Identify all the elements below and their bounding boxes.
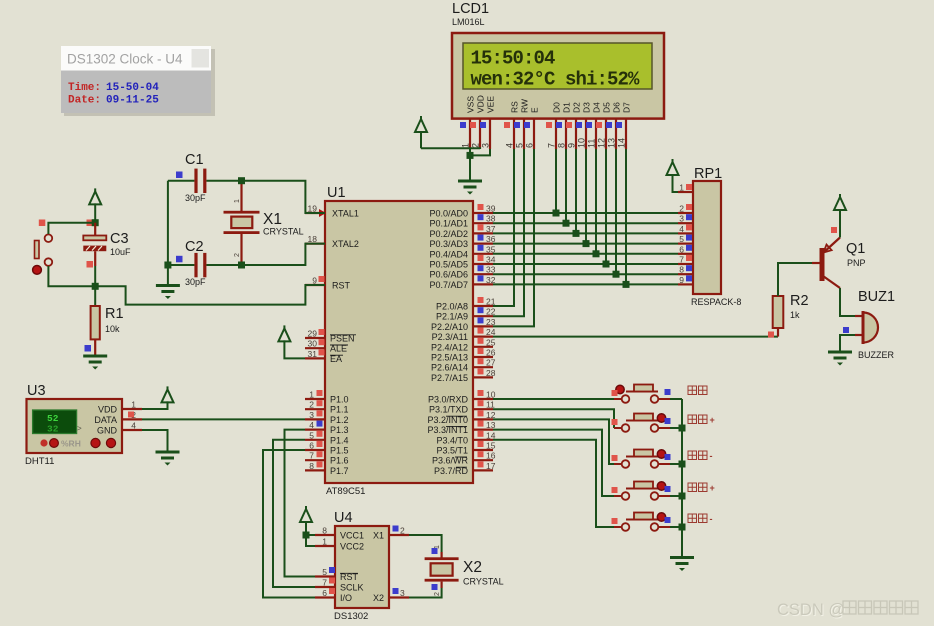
svg-text:3: 3 xyxy=(481,143,491,148)
svg-text:wen:32°C shi:52%: wen:32°C shi:52% xyxy=(471,69,641,91)
svg-text:P2.7/A15: P2.7/A15 xyxy=(431,373,468,383)
svg-text:3: 3 xyxy=(309,410,314,420)
svg-text:10k: 10k xyxy=(105,324,120,334)
svg-text:D0: D0 xyxy=(552,102,562,113)
svg-text:P0.4/AD4: P0.4/AD4 xyxy=(429,249,468,259)
svg-text:P2.3/A11: P2.3/A11 xyxy=(432,332,468,342)
wire P3.4 to button HUM- xyxy=(493,440,614,527)
button SW4 (shi du +) xyxy=(612,482,671,500)
svg-text:%RH: %RH xyxy=(61,439,81,449)
ground for R1 xyxy=(83,355,107,358)
LCD1 screen xyxy=(463,43,652,89)
wire DHT11 GND to ground xyxy=(142,430,168,452)
junction X1 top xyxy=(238,177,245,184)
wire LCD RS to P2.0 xyxy=(493,149,514,306)
resistor pack RP1 RESPACK-8 body xyxy=(693,181,721,294)
mcu U1 AT89C51 body xyxy=(325,201,473,483)
button SW1 (she zhi) xyxy=(612,385,671,403)
svg-text:1: 1 xyxy=(322,537,327,547)
svg-text:4: 4 xyxy=(309,420,314,430)
svg-text:RST: RST xyxy=(332,281,351,291)
push button reset switch xyxy=(35,241,40,259)
svg-text:12: 12 xyxy=(597,138,607,148)
svg-text:30pF: 30pF xyxy=(185,277,206,287)
wire reset button bottom xyxy=(48,266,95,286)
wire DHT11 DATA to P1.2 xyxy=(142,418,305,420)
wire Q1 collector to buzzer xyxy=(840,288,855,316)
wire P3.3 to button HUM+ xyxy=(493,430,614,496)
label wen du + xyxy=(688,415,697,424)
power arrow for DHT11 xyxy=(162,389,174,402)
capacitor C2 30pF xyxy=(194,253,197,277)
svg-text:-: - xyxy=(710,514,713,524)
ground for LCD VSS VEE xyxy=(458,180,482,183)
wire LCD VEE join VSS xyxy=(470,149,490,155)
svg-text:27: 27 xyxy=(486,358,496,368)
svg-text:5: 5 xyxy=(309,430,314,440)
svg-text:2: 2 xyxy=(679,204,684,214)
svg-text:VCC1: VCC1 xyxy=(340,531,364,541)
svg-text:16: 16 xyxy=(486,451,496,461)
wire P1.3 to U4 RST xyxy=(285,430,316,577)
svg-text:9: 9 xyxy=(567,143,577,148)
junction U4 VCC xyxy=(303,532,310,539)
svg-text:13: 13 xyxy=(607,138,617,148)
svg-text:DATA: DATA xyxy=(94,415,117,425)
sensor U3 DHT11 body xyxy=(27,399,123,453)
svg-text:P3.4/T0: P3.4/T0 xyxy=(436,435,468,445)
svg-text:D3: D3 xyxy=(582,102,592,113)
popup window DS1302 Clock - U4 xyxy=(61,46,215,116)
svg-text:X1: X1 xyxy=(373,531,384,541)
svg-text:X1: X1 xyxy=(263,211,282,228)
svg-text:+: + xyxy=(710,483,715,493)
svg-text:1: 1 xyxy=(461,143,471,148)
svg-text:I/O: I/O xyxy=(340,593,352,603)
ground for buzzer xyxy=(828,351,852,354)
lcd LCD1 LM016L body xyxy=(452,33,664,119)
wire LCD E to P2.2 xyxy=(493,149,534,326)
wire RST net to U1 RST xyxy=(95,285,325,305)
svg-text:RESPACK-8: RESPACK-8 xyxy=(691,297,741,307)
svg-text:P2.1/A9: P2.1/A9 xyxy=(436,312,468,322)
svg-text:P0.0/AD0: P0.0/AD0 xyxy=(429,209,468,219)
svg-text:25: 25 xyxy=(486,337,496,347)
button SW2 (wen du +) xyxy=(612,414,671,432)
wire LCD D0-D7 verticals xyxy=(555,149,557,213)
wire U4 VCC1 VCC2 to power xyxy=(306,535,315,546)
svg-text:3: 3 xyxy=(400,588,405,598)
svg-text:P2.2/A10: P2.2/A10 xyxy=(431,322,468,332)
wire P1.5 to U4 I/O xyxy=(263,450,315,598)
svg-text:D1: D1 xyxy=(562,102,572,113)
svg-text:15-50-04: 15-50-04 xyxy=(106,82,159,94)
svg-text:10uF: 10uF xyxy=(110,247,131,257)
wire LCD VDD to power xyxy=(421,147,480,150)
svg-text:R1: R1 xyxy=(105,306,124,322)
svg-text:15:50:04: 15:50:04 xyxy=(471,48,556,70)
svg-text:P0.3/AD3: P0.3/AD3 xyxy=(429,239,468,249)
svg-text:DS1302 Clock - U4: DS1302 Clock - U4 xyxy=(67,52,183,67)
wire LCD VSS to ground xyxy=(469,149,471,181)
power arrow for U4 xyxy=(300,509,312,522)
svg-text:2: 2 xyxy=(400,526,405,536)
wire U4 X1 to crystal X2 xyxy=(409,535,442,552)
svg-text:5: 5 xyxy=(679,234,684,244)
svg-text:8: 8 xyxy=(557,143,567,148)
label she zhi xyxy=(688,386,697,395)
svg-text:2: 2 xyxy=(434,592,441,596)
power arrow for reset xyxy=(89,191,101,204)
junction dots ground bus xyxy=(679,425,686,432)
svg-text:U3: U3 xyxy=(27,383,46,399)
svg-text:2: 2 xyxy=(309,400,314,410)
svg-text:C2: C2 xyxy=(185,239,204,255)
svg-text:VSS: VSS xyxy=(466,96,476,113)
power arrow for EA xyxy=(278,328,290,341)
svg-text:LM016L: LM016L xyxy=(452,17,485,27)
RP1 pin state squares xyxy=(686,184,692,190)
crystal X1 xyxy=(240,181,242,211)
svg-text:XTAL2: XTAL2 xyxy=(332,239,359,249)
svg-text:VEE: VEE xyxy=(486,96,496,113)
svg-text:8: 8 xyxy=(322,526,327,536)
svg-text:X2: X2 xyxy=(463,559,482,576)
svg-text:Time:: Time: xyxy=(68,82,101,94)
U1 XTAL1 pin arrow xyxy=(319,209,326,217)
wire P2.3 to R2 xyxy=(493,336,778,338)
svg-text:P1.0: P1.0 xyxy=(330,395,349,405)
U4 pin state squares xyxy=(329,567,335,573)
svg-text:VDD: VDD xyxy=(98,405,118,415)
svg-text:5: 5 xyxy=(515,143,525,148)
svg-text:14: 14 xyxy=(617,138,627,148)
svg-text:RS: RS xyxy=(510,101,520,113)
resistor R1 10k xyxy=(94,286,96,306)
junction X1 bottom xyxy=(238,262,245,269)
DHT11 icons xyxy=(40,439,47,446)
svg-text:P0.2/AD2: P0.2/AD2 xyxy=(429,229,468,239)
svg-text:D7: D7 xyxy=(622,102,632,113)
rtc U4 DS1302 body xyxy=(335,526,389,608)
svg-text:P1.3: P1.3 xyxy=(330,425,349,435)
svg-text:RW: RW xyxy=(520,99,530,113)
svg-text:P3.0/RXD: P3.0/RXD xyxy=(428,395,469,405)
svg-text:D5: D5 xyxy=(602,102,612,113)
wire LCD RW to P2.1 xyxy=(493,149,524,316)
svg-text:10: 10 xyxy=(577,138,587,148)
svg-text:U1: U1 xyxy=(327,185,346,201)
svg-text:-: - xyxy=(710,451,713,461)
svg-text:28: 28 xyxy=(486,368,496,378)
wire U4 X2 to crystal X2 xyxy=(409,588,442,598)
wire R2 to Q1 base xyxy=(778,263,812,296)
svg-text:6: 6 xyxy=(309,441,314,451)
wire EA to power xyxy=(284,340,305,358)
wire C3 bottom to RST net xyxy=(94,266,96,286)
svg-text:CRYSTAL: CRYSTAL xyxy=(463,577,504,587)
svg-text:30: 30 xyxy=(308,339,318,349)
wire P3.0 to button SET xyxy=(493,398,614,400)
label wen du - xyxy=(688,451,697,460)
button SW3 (wen du -) xyxy=(612,450,671,468)
wire buzzer to ground xyxy=(840,335,855,352)
capacitor C3 10uF xyxy=(94,223,96,236)
svg-text:P2.4/A12: P2.4/A12 xyxy=(431,342,468,352)
wire P3.1 to button TEMP+ xyxy=(493,409,614,428)
svg-text:4: 4 xyxy=(505,143,515,148)
svg-text:D2: D2 xyxy=(572,102,582,113)
U1 left pin stubs xyxy=(305,212,325,214)
wire P1.4 to U4 SCLK xyxy=(273,440,315,587)
svg-text:VCC2: VCC2 xyxy=(340,542,364,552)
wire C1 C2 left vertical xyxy=(167,181,169,286)
wire C2 row to XTAL2 xyxy=(168,264,195,266)
svg-text:CSDN @: CSDN @ xyxy=(777,601,845,619)
DHT11 pin stubs xyxy=(122,408,142,410)
wire bus P0.0-P0.7 to RP1 xyxy=(493,212,678,214)
svg-text:31: 31 xyxy=(308,349,318,359)
wire reset button top to C3 top xyxy=(48,223,95,234)
svg-text:29: 29 xyxy=(308,329,318,339)
buzzer BUZ1 xyxy=(855,315,863,317)
svg-text:Date:: Date: xyxy=(68,95,101,107)
U1 right pin stubs xyxy=(473,212,493,214)
svg-text:LCD1: LCD1 xyxy=(452,1,489,17)
svg-text:P3.5/T1: P3.5/T1 xyxy=(436,446,468,456)
svg-text:8: 8 xyxy=(309,461,314,471)
svg-text:C3: C3 xyxy=(110,231,129,247)
crystal X2 xyxy=(441,552,443,558)
svg-text:P0.1/AD1: P0.1/AD1 xyxy=(429,219,468,229)
U4 pin stubs xyxy=(315,534,335,536)
ground for buttons xyxy=(670,556,694,559)
svg-text:P0.7/AD7: P0.7/AD7 xyxy=(429,280,468,290)
capacitor C1 30pF xyxy=(194,169,197,193)
svg-text:P2.6/A14: P2.6/A14 xyxy=(431,363,468,373)
svg-text:Q1: Q1 xyxy=(846,241,865,257)
svg-text:30pF: 30pF xyxy=(185,193,206,203)
svg-text:3: 3 xyxy=(679,214,684,224)
svg-text:P1.5: P1.5 xyxy=(330,446,349,456)
svg-text:BUZZER: BUZZER xyxy=(858,350,895,360)
svg-text:P1.2: P1.2 xyxy=(330,415,349,425)
junction C3 top xyxy=(92,219,99,226)
svg-text:32: 32 xyxy=(47,424,59,435)
svg-text:GND: GND xyxy=(97,426,118,436)
svg-text:U4: U4 xyxy=(334,510,353,526)
junction C2 left xyxy=(164,262,171,269)
power arrow for RP1 xyxy=(667,162,679,175)
svg-text:9: 9 xyxy=(679,275,684,285)
LCD1 pin state squares xyxy=(460,122,466,128)
svg-text:>: > xyxy=(77,424,82,433)
svg-text:VDD: VDD xyxy=(476,95,486,113)
LCD1 pin stubs xyxy=(469,119,471,149)
svg-text:1: 1 xyxy=(234,199,241,203)
wire P3.2 to button TEMP- xyxy=(493,419,614,464)
svg-text:5: 5 xyxy=(322,567,327,577)
resistor R2 1k xyxy=(777,328,779,337)
svg-text:P2.0/A8: P2.0/A8 xyxy=(436,302,468,312)
junction RST net xyxy=(92,283,99,290)
wire DHT11 VDD to power xyxy=(142,401,168,409)
ground for C1 C2 xyxy=(156,284,180,287)
svg-text:P1.4: P1.4 xyxy=(330,435,349,445)
svg-text:PNP: PNP xyxy=(847,258,866,268)
wire C1 row to XTAL1 xyxy=(168,180,195,182)
svg-text:AT89C51: AT89C51 xyxy=(326,486,365,497)
svg-text:09-11-25: 09-11-25 xyxy=(106,95,159,107)
wire RP1 pin1 to power xyxy=(673,174,679,192)
svg-text:6: 6 xyxy=(322,588,327,598)
svg-text:1k: 1k xyxy=(790,310,800,320)
svg-text:26: 26 xyxy=(486,348,496,358)
U1 left pin state squares xyxy=(319,276,325,282)
button SW5 (shi du -) xyxy=(612,513,671,531)
svg-text:P1.1: P1.1 xyxy=(330,405,349,415)
svg-text:XTAL1: XTAL1 xyxy=(332,209,359,219)
U1 right pin state squares xyxy=(478,204,484,210)
svg-text:SCLK: SCLK xyxy=(340,583,364,593)
svg-text:6: 6 xyxy=(525,143,535,148)
svg-text:P2.5/A13: P2.5/A13 xyxy=(431,353,468,363)
junction dots D0-D7 on P0 rows xyxy=(553,210,560,217)
svg-text:1: 1 xyxy=(679,183,684,193)
svg-text:+: + xyxy=(710,415,715,425)
svg-text:7: 7 xyxy=(309,451,314,461)
power arrow for LCD VDD xyxy=(415,119,427,132)
svg-text:52: 52 xyxy=(47,413,59,424)
svg-text:P1.6: P1.6 xyxy=(330,456,349,466)
svg-text:E: E xyxy=(530,107,540,113)
svg-text:RP1: RP1 xyxy=(694,166,722,182)
svg-text:15: 15 xyxy=(486,441,496,451)
svg-text:P0.5/AD5: P0.5/AD5 xyxy=(429,260,468,270)
junction VSS VEE xyxy=(467,152,474,159)
power arrow for Q1 xyxy=(834,197,846,210)
wire Q1 emitter to power xyxy=(839,209,841,238)
svg-text:R2: R2 xyxy=(790,293,809,309)
svg-text:17: 17 xyxy=(486,461,496,471)
label shi du - xyxy=(688,514,697,523)
svg-text:2: 2 xyxy=(234,253,241,257)
svg-text:7: 7 xyxy=(322,578,327,588)
svg-text:C1: C1 xyxy=(185,152,204,168)
svg-text:BUZ1: BUZ1 xyxy=(858,289,895,305)
svg-text:CRYSTAL: CRYSTAL xyxy=(263,227,304,237)
svg-text:2: 2 xyxy=(471,143,481,148)
svg-text:8: 8 xyxy=(679,265,684,275)
svg-text:4: 4 xyxy=(679,224,684,234)
svg-text:1: 1 xyxy=(131,400,136,410)
svg-text:1: 1 xyxy=(309,390,314,400)
svg-text:7: 7 xyxy=(547,143,557,148)
svg-text:DHT11: DHT11 xyxy=(25,456,54,467)
ground for DHT11 xyxy=(156,451,180,454)
svg-text:P1.7: P1.7 xyxy=(330,466,349,476)
svg-text:6: 6 xyxy=(679,244,684,254)
svg-text:X2: X2 xyxy=(373,593,384,603)
transistor Q1 PNP xyxy=(812,262,820,264)
DHT11 display xyxy=(33,410,77,434)
svg-text:D4: D4 xyxy=(592,102,602,113)
svg-text:7: 7 xyxy=(679,255,684,265)
wire ground bus vertical xyxy=(681,399,683,558)
svg-text:D6: D6 xyxy=(612,102,622,113)
svg-text:P3.1/TXD: P3.1/TXD xyxy=(429,405,469,415)
svg-text:4: 4 xyxy=(131,421,136,431)
svg-text:P0.6/AD6: P0.6/AD6 xyxy=(429,270,468,280)
label shi du + xyxy=(688,483,697,492)
svg-text:DS1302: DS1302 xyxy=(334,611,368,622)
wire buttons to ground bus xyxy=(670,398,682,400)
RP1 pin stubs xyxy=(678,191,693,193)
svg-text:11: 11 xyxy=(587,139,597,148)
